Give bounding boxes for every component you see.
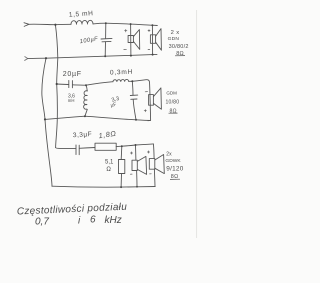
- svg-text:30/80/2: 30/80/2: [169, 44, 189, 50]
- svg-text:kHz: kHz: [105, 215, 122, 226]
- svg-text:GDN: GDN: [168, 36, 180, 42]
- svg-text:GDWK: GDWK: [165, 158, 181, 164]
- svg-text:3,3µF: 3,3µF: [73, 131, 93, 139]
- svg-text:mH: mH: [68, 98, 75, 103]
- svg-text:20µF: 20µF: [63, 71, 82, 78]
- svg-text:5,1: 5,1: [105, 159, 114, 165]
- svg-text:8Ω: 8Ω: [170, 108, 177, 114]
- svg-text:GDM: GDM: [166, 91, 177, 96]
- svg-text:8Ω: 8Ω: [171, 174, 179, 180]
- svg-text:2 x: 2 x: [171, 30, 180, 36]
- svg-text:9/120: 9/120: [166, 165, 183, 172]
- svg-text:8Ω: 8Ω: [176, 51, 184, 57]
- svg-text:0,7: 0,7: [35, 217, 49, 228]
- svg-text:10/80: 10/80: [166, 99, 180, 105]
- svg-text:Ω: Ω: [106, 167, 111, 173]
- svg-text:0,3mH: 0,3mH: [110, 69, 133, 77]
- svg-text:2x: 2x: [166, 152, 172, 158]
- svg-text:6: 6: [90, 214, 96, 225]
